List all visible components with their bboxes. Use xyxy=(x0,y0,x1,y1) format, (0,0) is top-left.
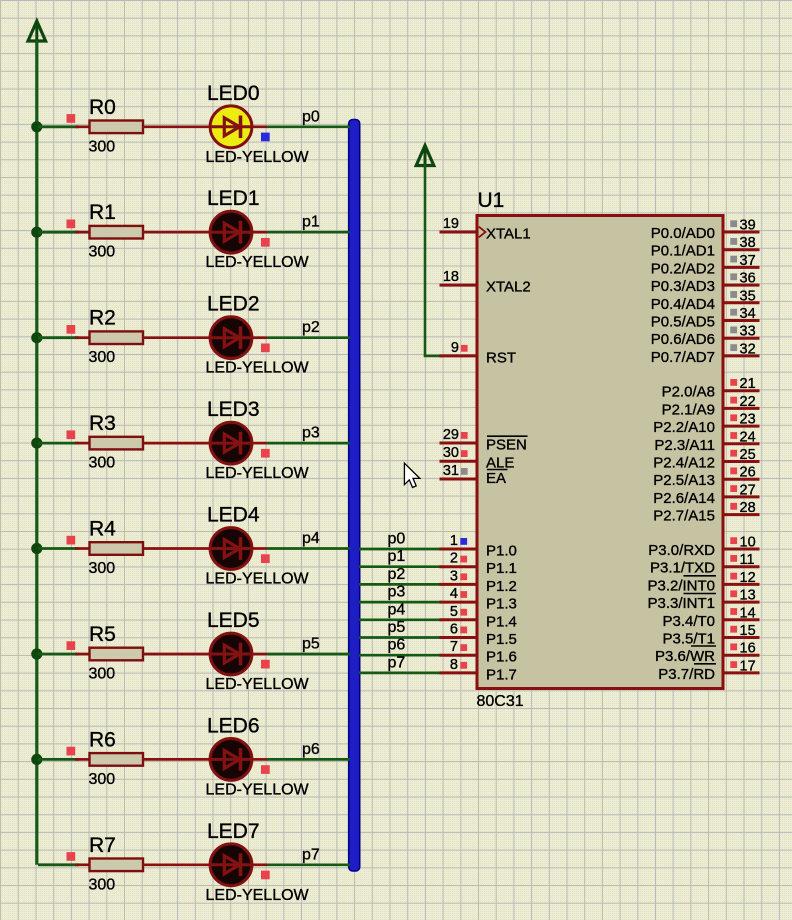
svg-text:P3.2/INT0: P3.2/INT0 xyxy=(647,577,715,594)
svg-text:P3.0/RXD: P3.0/RXD xyxy=(648,542,715,559)
svg-text:P0.6/AD6: P0.6/AD6 xyxy=(651,331,715,348)
svg-text:LED1: LED1 xyxy=(207,187,260,210)
svg-text:p3: p3 xyxy=(388,584,406,601)
svg-text:R5: R5 xyxy=(89,623,116,646)
svg-text:12: 12 xyxy=(740,570,756,586)
svg-text:p5: p5 xyxy=(302,636,320,653)
svg-text:LED5: LED5 xyxy=(207,609,260,632)
svg-text:34: 34 xyxy=(740,306,756,322)
svg-text:P1.1: P1.1 xyxy=(486,560,517,577)
svg-text:LED-YELLOW: LED-YELLOW xyxy=(206,360,310,377)
svg-text:RST: RST xyxy=(486,349,516,366)
svg-text:R4: R4 xyxy=(89,518,116,541)
svg-text:LED-YELLOW: LED-YELLOW xyxy=(206,887,310,904)
svg-text:P2.1/A9: P2.1/A9 xyxy=(662,401,715,418)
svg-text:p6: p6 xyxy=(388,637,406,654)
svg-text:LED0: LED0 xyxy=(207,82,260,105)
svg-text:p7: p7 xyxy=(302,846,320,863)
svg-text:8: 8 xyxy=(450,657,458,673)
svg-text:R7: R7 xyxy=(89,834,116,857)
svg-text:R0: R0 xyxy=(89,96,116,119)
svg-text:36: 36 xyxy=(740,271,756,287)
svg-text:U1: U1 xyxy=(478,189,505,212)
svg-text:27: 27 xyxy=(740,482,756,498)
svg-text:P1.4: P1.4 xyxy=(486,613,517,630)
svg-text:P3.6/WR: P3.6/WR xyxy=(655,648,715,665)
svg-text:33: 33 xyxy=(740,324,756,340)
svg-text:23: 23 xyxy=(740,412,756,428)
svg-text:p0: p0 xyxy=(302,108,320,125)
svg-text:9: 9 xyxy=(451,340,459,356)
svg-text:P2.3/A11: P2.3/A11 xyxy=(654,437,715,454)
svg-text:R1: R1 xyxy=(89,201,116,224)
svg-text:LED-YELLOW: LED-YELLOW xyxy=(206,676,310,693)
svg-text:LED-YELLOW: LED-YELLOW xyxy=(206,781,310,798)
svg-text:P1.7: P1.7 xyxy=(486,666,517,683)
svg-text:300: 300 xyxy=(89,455,116,472)
svg-text:7: 7 xyxy=(450,639,458,655)
svg-text:LED-YELLOW: LED-YELLOW xyxy=(206,571,310,588)
svg-text:LED7: LED7 xyxy=(207,820,260,843)
svg-text:39: 39 xyxy=(740,218,756,234)
svg-text:LED-YELLOW: LED-YELLOW xyxy=(206,149,310,166)
svg-text:P1.3: P1.3 xyxy=(486,596,517,613)
svg-text:R6: R6 xyxy=(89,728,116,751)
svg-text:2: 2 xyxy=(450,551,458,567)
svg-text:p5: p5 xyxy=(388,619,406,636)
svg-text:80C31: 80C31 xyxy=(477,693,524,710)
svg-text:16: 16 xyxy=(740,641,756,657)
svg-text:LED-YELLOW: LED-YELLOW xyxy=(206,465,310,482)
svg-text:P3.3/INT1: P3.3/INT1 xyxy=(647,595,715,612)
svg-text:15: 15 xyxy=(740,623,756,639)
svg-text:p0: p0 xyxy=(388,531,406,548)
svg-text:p4: p4 xyxy=(302,530,320,547)
svg-text:3: 3 xyxy=(450,568,458,584)
svg-text:37: 37 xyxy=(740,253,756,269)
svg-text:P0.7/AD7: P0.7/AD7 xyxy=(651,349,715,366)
svg-text:XTAL1: XTAL1 xyxy=(486,226,531,243)
svg-text:R3: R3 xyxy=(89,412,116,435)
svg-text:R2: R2 xyxy=(89,307,116,330)
svg-text:P2.7/A15: P2.7/A15 xyxy=(653,508,715,525)
svg-text:18: 18 xyxy=(443,269,459,285)
svg-text:P0.5/AD5: P0.5/AD5 xyxy=(651,314,715,331)
svg-text:P3.4/T0: P3.4/T0 xyxy=(662,613,715,630)
svg-text:P1.6: P1.6 xyxy=(486,649,517,666)
svg-text:P3.7/RD: P3.7/RD xyxy=(658,666,715,683)
svg-text:5: 5 xyxy=(450,604,458,620)
svg-text:P0.2/AD2: P0.2/AD2 xyxy=(651,260,715,277)
svg-text:P2.5/A13: P2.5/A13 xyxy=(653,472,715,489)
svg-text:p4: p4 xyxy=(388,601,406,618)
svg-text:32: 32 xyxy=(740,341,756,357)
svg-text:LED4: LED4 xyxy=(207,504,260,527)
svg-text:17: 17 xyxy=(740,658,756,674)
svg-text:30: 30 xyxy=(443,445,459,461)
svg-text:p1: p1 xyxy=(302,214,320,231)
svg-text:300: 300 xyxy=(89,560,116,577)
svg-text:p1: p1 xyxy=(388,548,406,565)
svg-text:25: 25 xyxy=(740,447,756,463)
svg-text:19: 19 xyxy=(443,216,459,232)
svg-text:P1.0: P1.0 xyxy=(486,543,517,560)
svg-text:P3.5/T1: P3.5/T1 xyxy=(662,631,715,648)
svg-text:p3: p3 xyxy=(302,425,320,442)
svg-text:300: 300 xyxy=(89,244,116,261)
svg-text:300: 300 xyxy=(89,666,116,683)
svg-text:P0.3/AD3: P0.3/AD3 xyxy=(651,278,715,295)
svg-text:300: 300 xyxy=(89,876,116,893)
svg-text:LED-YELLOW: LED-YELLOW xyxy=(206,254,310,271)
svg-text:PSEN: PSEN xyxy=(486,437,527,454)
svg-text:P2.6/A14: P2.6/A14 xyxy=(653,490,715,507)
svg-text:p6: p6 xyxy=(302,741,320,758)
svg-text:13: 13 xyxy=(740,588,756,604)
svg-text:P0.0/AD0: P0.0/AD0 xyxy=(651,225,715,242)
svg-text:P2.2/A10: P2.2/A10 xyxy=(653,419,715,436)
svg-text:22: 22 xyxy=(740,394,756,410)
svg-text:300: 300 xyxy=(89,771,116,788)
svg-text:P1.2: P1.2 xyxy=(486,578,517,595)
svg-text:LED2: LED2 xyxy=(207,293,260,316)
svg-text:6: 6 xyxy=(450,622,458,638)
svg-text:11: 11 xyxy=(740,552,755,568)
svg-text:28: 28 xyxy=(740,500,756,516)
svg-text:P2.4/A12: P2.4/A12 xyxy=(653,455,715,472)
svg-text:P0.1/AD1: P0.1/AD1 xyxy=(651,243,715,260)
svg-text:300: 300 xyxy=(89,138,116,155)
svg-text:P0.4/AD4: P0.4/AD4 xyxy=(651,296,715,313)
svg-text:38: 38 xyxy=(740,235,756,251)
svg-text:31: 31 xyxy=(443,463,459,479)
svg-text:p2: p2 xyxy=(388,566,406,583)
svg-text:p7: p7 xyxy=(388,654,406,671)
svg-text:LED6: LED6 xyxy=(207,714,260,737)
svg-text:10: 10 xyxy=(740,535,756,551)
svg-text:35: 35 xyxy=(740,288,756,304)
svg-text:24: 24 xyxy=(740,429,756,445)
svg-text:29: 29 xyxy=(443,427,459,443)
svg-text:14: 14 xyxy=(740,605,756,621)
svg-text:26: 26 xyxy=(740,465,756,481)
svg-text:21: 21 xyxy=(740,376,756,392)
svg-text:P3.1/TXD: P3.1/TXD xyxy=(650,560,715,577)
svg-text:XTAL2: XTAL2 xyxy=(486,279,531,296)
svg-text:4: 4 xyxy=(450,586,458,602)
svg-text:P2.0/A8: P2.0/A8 xyxy=(662,384,715,401)
svg-text:LED3: LED3 xyxy=(207,398,260,421)
svg-text:1: 1 xyxy=(450,533,458,549)
svg-text:P1.5: P1.5 xyxy=(486,631,517,648)
svg-text:EA: EA xyxy=(486,470,506,487)
svg-text:p2: p2 xyxy=(302,319,320,336)
svg-text:300: 300 xyxy=(89,349,116,366)
